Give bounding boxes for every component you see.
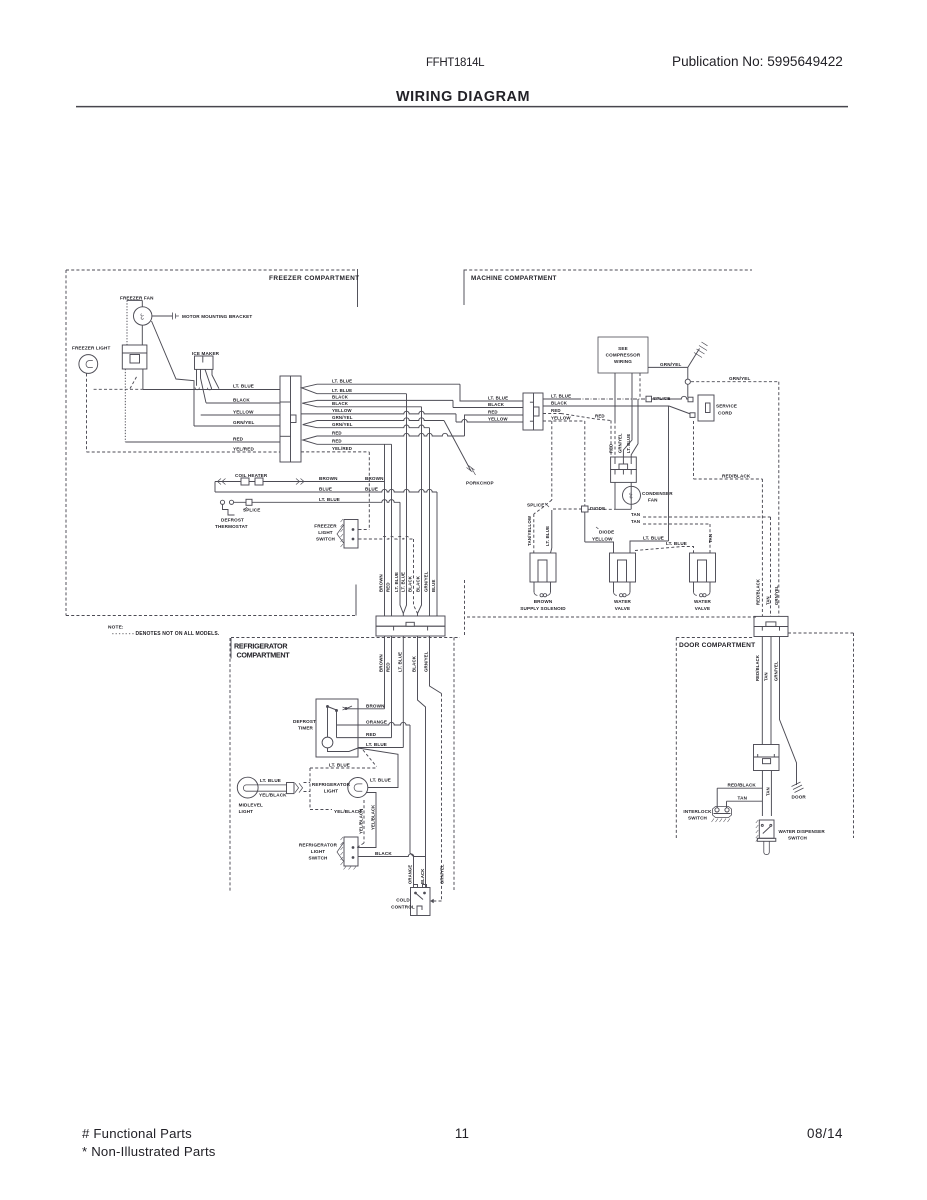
wire BLACK from switch to cold control — [359, 854, 426, 857]
svg-text:YELLOW: YELLOW — [592, 536, 613, 541]
svg-text:LIGHT: LIGHT — [324, 789, 339, 794]
svg-text:11: 11 — [455, 1126, 469, 1141]
svg-text:SWITCH: SWITCH — [308, 856, 328, 861]
svg-text:GRN/YEL: GRN/YEL — [233, 420, 255, 425]
heater loop left end — [214, 482, 216, 493]
wire GRN/YEL to splice circle — [687, 367, 689, 379]
svg-text:RED: RED — [595, 414, 605, 419]
svg-text:RED/BLACK: RED/BLACK — [722, 473, 751, 478]
svg-text:CONTROL: CONTROL — [391, 905, 415, 910]
svg-text:SUPPLY SOLENOID: SUPPLY SOLENOID — [520, 606, 566, 611]
wire TAN/YELLOW dashed branch — [551, 421, 553, 500]
porkchop ground slant — [444, 421, 471, 472]
see compressor wiring box — [598, 337, 648, 373]
svg-text:BROWN: BROWN — [319, 476, 338, 481]
svg-text:LT. BLUE: LT. BLUE — [643, 535, 664, 540]
condenser fan motor — [623, 486, 641, 504]
diode row dashes — [553, 508, 582, 510]
svg-text:TAN: TAN — [708, 534, 713, 543]
freezer compartment dashed border — [66, 269, 356, 271]
svg-text:RED: RED — [332, 439, 342, 444]
svg-text:TAN: TAN — [765, 596, 770, 605]
wire GRN/YEL vertical — [429, 428, 431, 616]
svg-text:FREEZER: FREEZER — [314, 524, 337, 529]
wire BROWN vertical — [384, 444, 386, 616]
svg-text:VALVE: VALVE — [695, 606, 710, 611]
wire BLACK dashed from switch to connector drop — [359, 536, 414, 539]
diode D1 — [582, 506, 589, 512]
wire LT. BLUE freezer row — [143, 389, 280, 391]
svg-text:YEL/RED: YEL/RED — [332, 446, 352, 451]
svg-text:SERVICE: SERVICE — [716, 404, 737, 409]
svg-text:GRN/YEL: GRN/YEL — [424, 651, 429, 672]
svg-text:GRN/YEL: GRN/YEL — [660, 362, 682, 367]
svg-text:SEE: SEE — [618, 346, 628, 351]
interlock switch — [713, 807, 732, 818]
wire YELLOW freezer row — [201, 414, 280, 416]
svg-text:COIL HEATER: COIL HEATER — [235, 473, 268, 478]
svg-text:YEL/BLACK: YEL/BLACK — [259, 792, 287, 797]
wire LT. BLUE drop to water valve 1 — [668, 406, 670, 541]
water dispenser connector block — [754, 745, 780, 771]
wires below door connector — [761, 637, 763, 745]
refrigerator light dashed option box — [310, 767, 377, 769]
svg-text:GRN/YEL: GRN/YEL — [439, 864, 444, 884]
defrost timer internal wires — [337, 724, 359, 726]
svg-text:DIODE: DIODE — [590, 506, 605, 511]
svg-text:COLD: COLD — [396, 898, 410, 903]
svg-text:SWITCH: SWITCH — [788, 836, 808, 841]
svg-text:YELLOW: YELLOW — [233, 409, 254, 414]
freezer light bulb — [79, 355, 98, 374]
svg-text:FFHT1814L: FFHT1814L — [426, 57, 485, 69]
wire splice to service cord terminal — [687, 384, 689, 397]
svg-text:RED: RED — [233, 436, 244, 441]
wire RED/BLACK to interlock switch — [761, 771, 763, 817]
svg-text:RED/BLACK: RED/BLACK — [728, 782, 757, 787]
refrigerator wall connector J2 — [376, 616, 445, 626]
wire LT. BLUE row to splice and service cord — [543, 398, 577, 400]
freezer wall connector J1 — [280, 376, 301, 462]
svg-text:GRN/YEL: GRN/YEL — [332, 422, 353, 427]
wire freezer light dashed to fan block — [94, 388, 143, 390]
svg-text:LT. BLUE: LT. BLUE — [626, 434, 631, 453]
wire BLACK row to service cord — [543, 405, 669, 407]
splice circle — [685, 379, 690, 384]
svg-text:YELLOW: YELLOW — [332, 408, 352, 413]
svg-text:BLACK: BLACK — [420, 869, 425, 884]
wire fan to motor mounting bracket — [152, 315, 172, 317]
water valve 2 — [690, 553, 716, 582]
svg-text:SPLICE: SPLICE — [527, 503, 545, 508]
svg-text:MACHINE COMPARTMENT: MACHINE COMPARTMENT — [471, 275, 557, 282]
svg-text:RED: RED — [366, 732, 377, 737]
GRN/YEL arrow into cold control — [434, 900, 442, 902]
svg-text:LT. BLUE: LT. BLUE — [401, 572, 406, 592]
wire LT. BLUE dashed to water valve 2 — [635, 547, 694, 554]
compressor box pin wires — [614, 373, 616, 421]
svg-text:YEL/RED: YEL/RED — [233, 447, 254, 452]
svg-text:LT. BLUE: LT. BLUE — [398, 652, 403, 672]
svg-text:* Non-Illustrated Parts: * Non-Illustrated Parts — [82, 1144, 216, 1159]
door ground symbol — [792, 782, 804, 793]
svg-text:GRN/YEL: GRN/YEL — [774, 585, 779, 605]
svg-text:BROWN: BROWN — [379, 574, 384, 592]
midlevel connector — [287, 783, 295, 794]
svg-text:- - - - - - - DENOTES NOT ON: - - - - - - - DENOTES NOT ON ALL MODELS. — [112, 631, 220, 637]
motor mounting bracket symbol — [173, 313, 179, 320]
machine compartment title bracket — [463, 270, 465, 306]
defrost heater BROWN row with heater elements — [215, 481, 385, 483]
svg-text:RED: RED — [386, 662, 391, 672]
svg-text:RED/BLACK: RED/BLACK — [755, 655, 760, 681]
svg-text:BLACK: BLACK — [488, 402, 505, 407]
freezer light switch body — [344, 520, 358, 549]
svg-text:LT. BLUE: LT. BLUE — [394, 572, 399, 592]
wire LT. BLUE from timer — [358, 747, 403, 749]
wire LT. BLUE heater row — [234, 500, 400, 503]
svg-text:BLACK: BLACK — [416, 575, 421, 592]
svg-text:# Functional Parts: # Functional Parts — [82, 1126, 192, 1141]
svg-text:RED: RED — [551, 408, 561, 413]
svg-text:LT. BLUE: LT. BLUE — [488, 395, 508, 400]
wire RED from timer — [358, 737, 392, 739]
service cord bottom terminal — [690, 413, 695, 418]
svg-text:FREEZER LIGHT: FREEZER LIGHT — [72, 346, 110, 351]
svg-text:WIRING DIAGRAM: WIRING DIAGRAM — [396, 89, 530, 105]
svg-text:RED: RED — [386, 582, 391, 592]
svg-text:LT. BLUE: LT. BLUE — [233, 384, 254, 389]
wire freezer fan to connector block — [141, 300, 143, 306]
defrost timer motor — [322, 737, 333, 748]
svg-text:WIRING: WIRING — [614, 359, 632, 364]
defrost thermostat — [220, 500, 224, 504]
wire LT. BLUE timer to refrigerator light — [358, 748, 398, 788]
wire BLACK dashed vertical — [414, 539, 418, 614]
brown supply solenoid valve — [530, 553, 556, 582]
svg-text:INTERLOCK: INTERLOCK — [683, 809, 712, 814]
wire LT. BLUE pair from connector — [302, 384, 318, 394]
svg-text:TAN: TAN — [765, 787, 770, 796]
svg-text:LT. BLUE: LT. BLUE — [366, 742, 387, 747]
ice maker pin 1 — [196, 369, 198, 385]
wire RED vertical — [391, 444, 393, 616]
wire through condenser fan — [630, 482, 632, 509]
wire dashed switch to YEL/RED drop — [359, 529, 370, 531]
wire BLACK freezer row — [206, 402, 280, 404]
ice maker body — [195, 356, 214, 369]
svg-text:BLACK: BLACK — [412, 655, 417, 672]
svg-text:GRN/YEL: GRN/YEL — [729, 376, 751, 381]
svg-text:TIMER: TIMER — [298, 726, 314, 731]
wire TAN to interlock switch — [770, 771, 772, 817]
wire LT. BLUE to brown solenoid — [551, 510, 553, 548]
wire fan slant to GRN/YEL row — [152, 321, 195, 426]
wire GRN/YEL dashed row to door drop — [691, 381, 779, 383]
wire RED/BLACK dashed from service cord — [693, 421, 695, 479]
wire TAN dashed rows from condenser fan — [643, 516, 771, 518]
wire freezer light dashed to YEL/RED row — [86, 374, 88, 453]
door wall connector J4 — [754, 616, 788, 626]
svg-text:SPLICE: SPLICE — [243, 508, 261, 513]
svg-text:GRN/YEL: GRN/YEL — [773, 661, 778, 681]
wires below refrigerator connector — [384, 636, 386, 709]
svg-text:TAN: TAN — [738, 795, 748, 800]
wire TAN dashed vertical to door connector — [770, 517, 772, 616]
svg-text:BLACK: BLACK — [233, 397, 250, 402]
svg-text:DEFROST: DEFROST — [293, 719, 316, 724]
svg-text:TAN: TAN — [631, 519, 640, 524]
machine compartment dashed border — [464, 269, 752, 271]
wire ORANGE vertical to cold control — [410, 725, 414, 885]
svg-text:WATER DISPENSER: WATER DISPENSER — [779, 829, 826, 834]
wire YELLOW dashed down to diode — [543, 420, 585, 422]
svg-text:Publication No: 5995649422: Publication No: 5995649422 — [672, 54, 843, 69]
evaporator fan connector block — [122, 345, 147, 369]
svg-text:ORANGE: ORANGE — [408, 865, 413, 884]
svg-text:YELLOW: YELLOW — [488, 416, 508, 421]
svg-text:PORKCHOP: PORKCHOP — [466, 481, 494, 486]
svg-text:FAN: FAN — [648, 498, 658, 503]
svg-text:BLACK: BLACK — [551, 400, 568, 405]
svg-text:SWITCH: SWITCH — [688, 816, 708, 821]
svg-text:BLUE: BLUE — [365, 487, 378, 492]
wire YEL/RED dashed from connector to freezer light switch — [301, 451, 369, 453]
svg-text:GRN/YEL: GRN/YEL — [618, 433, 623, 453]
cold control box — [411, 888, 431, 916]
svg-text:SWITCH: SWITCH — [316, 537, 336, 542]
svg-text:WATER: WATER — [614, 599, 632, 604]
refrigerator compartment dashed border — [231, 637, 460, 639]
freezer fan motor — [134, 307, 152, 325]
midlevel light cable slot — [243, 785, 286, 791]
wire RED dashed to compressor relay — [543, 413, 561, 415]
svg-text:REFRIGERATOR: REFRIGERATOR — [312, 782, 351, 787]
svg-text:COMPRESSOR: COMPRESSOR — [606, 353, 641, 358]
refrigerator light bulb — [348, 778, 368, 798]
svg-text:VALVE: VALVE — [615, 606, 630, 611]
svg-text:REFRIGERATOR: REFRIGERATOR — [299, 843, 338, 848]
wire LT. BLUE vertical b — [403, 394, 406, 614]
service cord top terminal — [688, 397, 693, 402]
service cord plug — [698, 395, 714, 421]
svg-text:BLACK: BLACK — [332, 401, 349, 406]
svg-text:RED: RED — [609, 444, 614, 453]
svg-text:BROWN: BROWN — [366, 703, 385, 708]
svg-text:BROWN: BROWN — [365, 476, 384, 481]
refrigerator compartment title bracket — [230, 638, 232, 659]
wire YEL/RED freezer dashed row — [87, 451, 281, 453]
svg-text:ORANGE: ORANGE — [366, 719, 387, 724]
water dispenser switch plug — [757, 838, 776, 841]
wire YELLOW solid to water valve 1 — [584, 512, 586, 542]
svg-text:COMPARTMENT: COMPARTMENT — [237, 651, 291, 660]
svg-text:BLUE: BLUE — [431, 579, 436, 592]
wire YEL/RED dashed vertical drop — [368, 452, 370, 530]
svg-text:MIDLEVEL: MIDLEVEL — [239, 803, 263, 808]
svg-text:BLACK: BLACK — [332, 395, 349, 400]
svg-text:LT. BLUE: LT. BLUE — [332, 378, 352, 383]
wire YELLOW single from connector — [301, 411, 456, 414]
compressor start relay block — [611, 457, 637, 470]
machine compartment connector J3 — [523, 393, 543, 430]
wire LT. BLUE drop to relay — [631, 399, 638, 457]
door compartment dashed border — [676, 637, 754, 639]
svg-text:LT. BLUE: LT. BLUE — [545, 526, 550, 546]
splice S2 square — [646, 396, 652, 402]
defrost timer box — [316, 699, 358, 757]
wire RED pair from connector — [303, 436, 317, 444]
svg-text:GRN/YEL: GRN/YEL — [424, 571, 429, 592]
svg-text:LIGHT: LIGHT — [239, 809, 254, 814]
wire ORANGE from timer — [358, 722, 410, 725]
svg-text:SPLICE: SPLICE — [653, 396, 671, 401]
defrost timer contacts — [327, 706, 329, 708]
wire YEL/BLACK from light to switch — [359, 793, 377, 848]
svg-text:TAN: TAN — [631, 512, 640, 517]
svg-text:BLACK: BLACK — [375, 851, 392, 856]
wire GRN/YEL from compressor box — [648, 366, 688, 368]
svg-text:BLUE: BLUE — [319, 487, 332, 492]
svg-text:YELLOW: YELLOW — [551, 415, 571, 420]
svg-text:WATER: WATER — [694, 599, 712, 604]
ice maker pin 4 — [212, 369, 219, 388]
wire GRN/YEL dashed vertical to door connector — [778, 382, 780, 617]
svg-text:DEFROST: DEFROST — [221, 518, 244, 523]
svg-text:BLACK: BLACK — [408, 575, 413, 592]
svg-text:LT. BLUE: LT. BLUE — [666, 541, 687, 546]
midlevel light bulb — [237, 777, 258, 798]
wire LT. BLUE vertical a — [400, 502, 403, 613]
svg-text:MOTOR MOUNTING BRACKET: MOTOR MOUNTING BRACKET — [182, 314, 252, 319]
wire BLACK pair from connector — [302, 400, 317, 406]
freezer compartment title bracket — [357, 269, 359, 307]
svg-text:FREEZER FAN: FREEZER FAN — [120, 296, 154, 301]
wire RED freezer row — [125, 441, 280, 443]
splice S1 on LT BLUE row — [246, 499, 252, 505]
svg-text:NOTE:: NOTE: — [108, 625, 124, 631]
svg-text:LT. BLUE: LT. BLUE — [329, 762, 350, 767]
wire connector block left leg to RED row — [124, 369, 126, 442]
wire connector block right leg to LT BLUE row — [142, 369, 144, 390]
svg-text:LT. BLUE: LT. BLUE — [332, 388, 352, 393]
wire GRN/YEL pair from connector — [303, 421, 317, 428]
svg-text:RED: RED — [488, 409, 498, 414]
svg-text:LIGHT: LIGHT — [318, 530, 333, 535]
water valve 1 — [610, 553, 636, 582]
wire BLACK vertical — [418, 407, 422, 614]
svg-text:CORD: CORD — [718, 411, 733, 416]
title underline rule — [76, 106, 848, 108]
svg-text:FREEZER COMPARTMENT: FREEZER COMPARTMENT — [269, 275, 360, 282]
wire BROWN from timer — [358, 708, 385, 710]
svg-text:YEL/BLACK: YEL/BLACK — [358, 809, 363, 834]
svg-text:DIODE: DIODE — [599, 530, 614, 535]
svg-text:RED/BLACK: RED/BLACK — [755, 579, 760, 605]
svg-text:08/14: 08/14 — [807, 1126, 843, 1141]
svg-text:THERMOSTAT: THERMOSTAT — [215, 524, 248, 529]
relay left leg to diode row — [614, 482, 616, 509]
svg-text:TAN: TAN — [763, 672, 768, 681]
svg-text:BROWN: BROWN — [534, 599, 553, 604]
svg-text:YEL/BLACK: YEL/BLACK — [370, 805, 375, 830]
svg-text:LT. BLUE: LT. BLUE — [260, 778, 281, 783]
defrost heater BLUE row — [215, 489, 437, 492]
wire BLUE vertical — [436, 492, 438, 616]
svg-text:ICE MAKER: ICE MAKER — [192, 351, 220, 356]
svg-text:TAN/YELLOW: TAN/YELLOW — [527, 515, 532, 546]
ice maker pin 2 — [201, 369, 207, 402]
chassis ground symbol — [688, 349, 700, 368]
svg-text:LIGHT: LIGHT — [311, 849, 326, 854]
svg-text:DOOR: DOOR — [792, 795, 807, 800]
svg-text:DOOR COMPARTMENT: DOOR COMPARTMENT — [679, 642, 755, 649]
svg-text:LT. BLUE: LT. BLUE — [319, 497, 340, 502]
svg-text:BROWN: BROWN — [379, 654, 384, 672]
svg-text:LT. BLUE: LT. BLUE — [551, 393, 571, 398]
svg-text:GRN/YEL: GRN/YEL — [332, 415, 353, 420]
svg-text:LT. BLUE: LT. BLUE — [370, 777, 391, 782]
ice maker pin 3 — [205, 369, 212, 388]
svg-text:REFRIGERATOR: REFRIGERATOR — [234, 642, 288, 651]
wire TAN dashed drop to water valve 2 — [709, 524, 711, 553]
water dispenser switch — [759, 820, 774, 838]
refrigerator light switch body — [344, 837, 358, 866]
wire GRN/YEL freezer row — [194, 425, 280, 427]
svg-text:RED: RED — [332, 430, 342, 435]
